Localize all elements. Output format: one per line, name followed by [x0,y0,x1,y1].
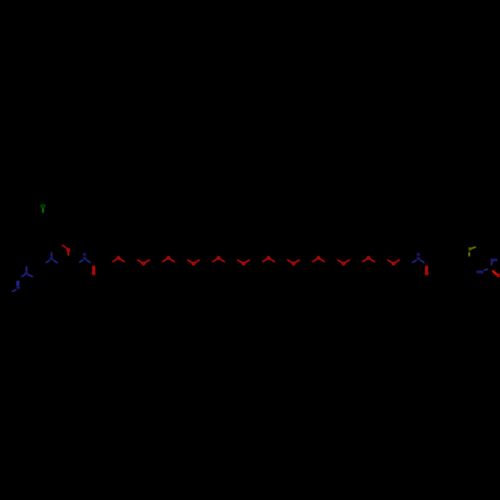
atom O ether [67,249,69,251]
bond N2 down-right half [28,275,32,277]
double bond C2=O biotin [493,271,496,274]
PEG O9 peak [313,259,317,262]
PEG O11 peak [363,259,367,262]
bond N2 down-left half [22,275,25,277]
PEG O6 valley [238,260,242,263]
double bond C=O amide1 [92,266,94,271]
svg-text:S: S [468,247,471,252]
bond N3-CH3 half [12,290,16,292]
PEG oxygens [113,257,400,265]
double bond C=O amide2 [425,266,427,271]
bond N1 up half [51,252,53,256]
bond N-C amide1 right half [87,260,90,262]
PEG O12 valley [388,260,392,263]
bond N1 down-left half [46,260,49,262]
PEG O4 valley [188,260,192,263]
PEG O7 peak [263,259,267,262]
PEG O2 valley [138,260,142,263]
bond N2 up half [26,267,28,271]
atom O amide2 [425,272,427,274]
bond C-N amide1 left half [80,260,83,262]
bond N1 down-right half [54,260,58,262]
bond C-Cl half [42,208,44,212]
bond S up-right half [472,247,476,248]
atom O biotin urea [497,274,499,276]
bond C-N amide2 left half [413,260,417,262]
bond HN-C2 half [484,269,487,270]
svg-text:HN: HN [477,270,484,275]
bond O-C wedge half [68,252,70,256]
bond N-C2 half [490,262,493,265]
atom O amide1 [92,272,94,274]
PEG O1 peak [113,259,117,262]
double bond C=N3 halves [17,281,19,286]
PEG O5 peak [213,259,217,262]
bond S down half [468,253,470,256]
PEG O8 valley [288,260,292,263]
PEG O10 valley [338,260,342,263]
PEG O3 peak [163,259,167,262]
bond C-O ether half (benzylic) [62,245,66,248]
bond N-C amide2 right half [421,260,425,262]
svg-text:N: N [17,285,21,290]
